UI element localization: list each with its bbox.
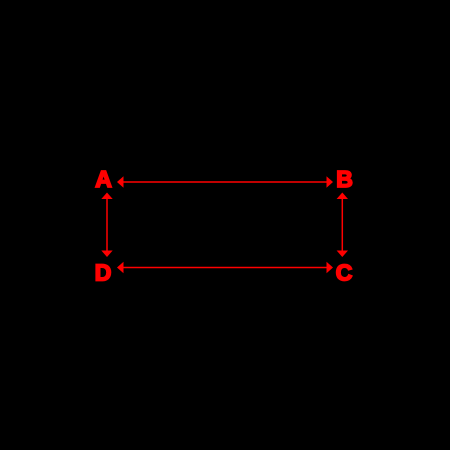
svg-text:B: B [336, 166, 353, 192]
svg-text:D: D [95, 260, 112, 286]
svg-text:C: C [336, 260, 353, 286]
svg-text:A: A [95, 166, 112, 192]
